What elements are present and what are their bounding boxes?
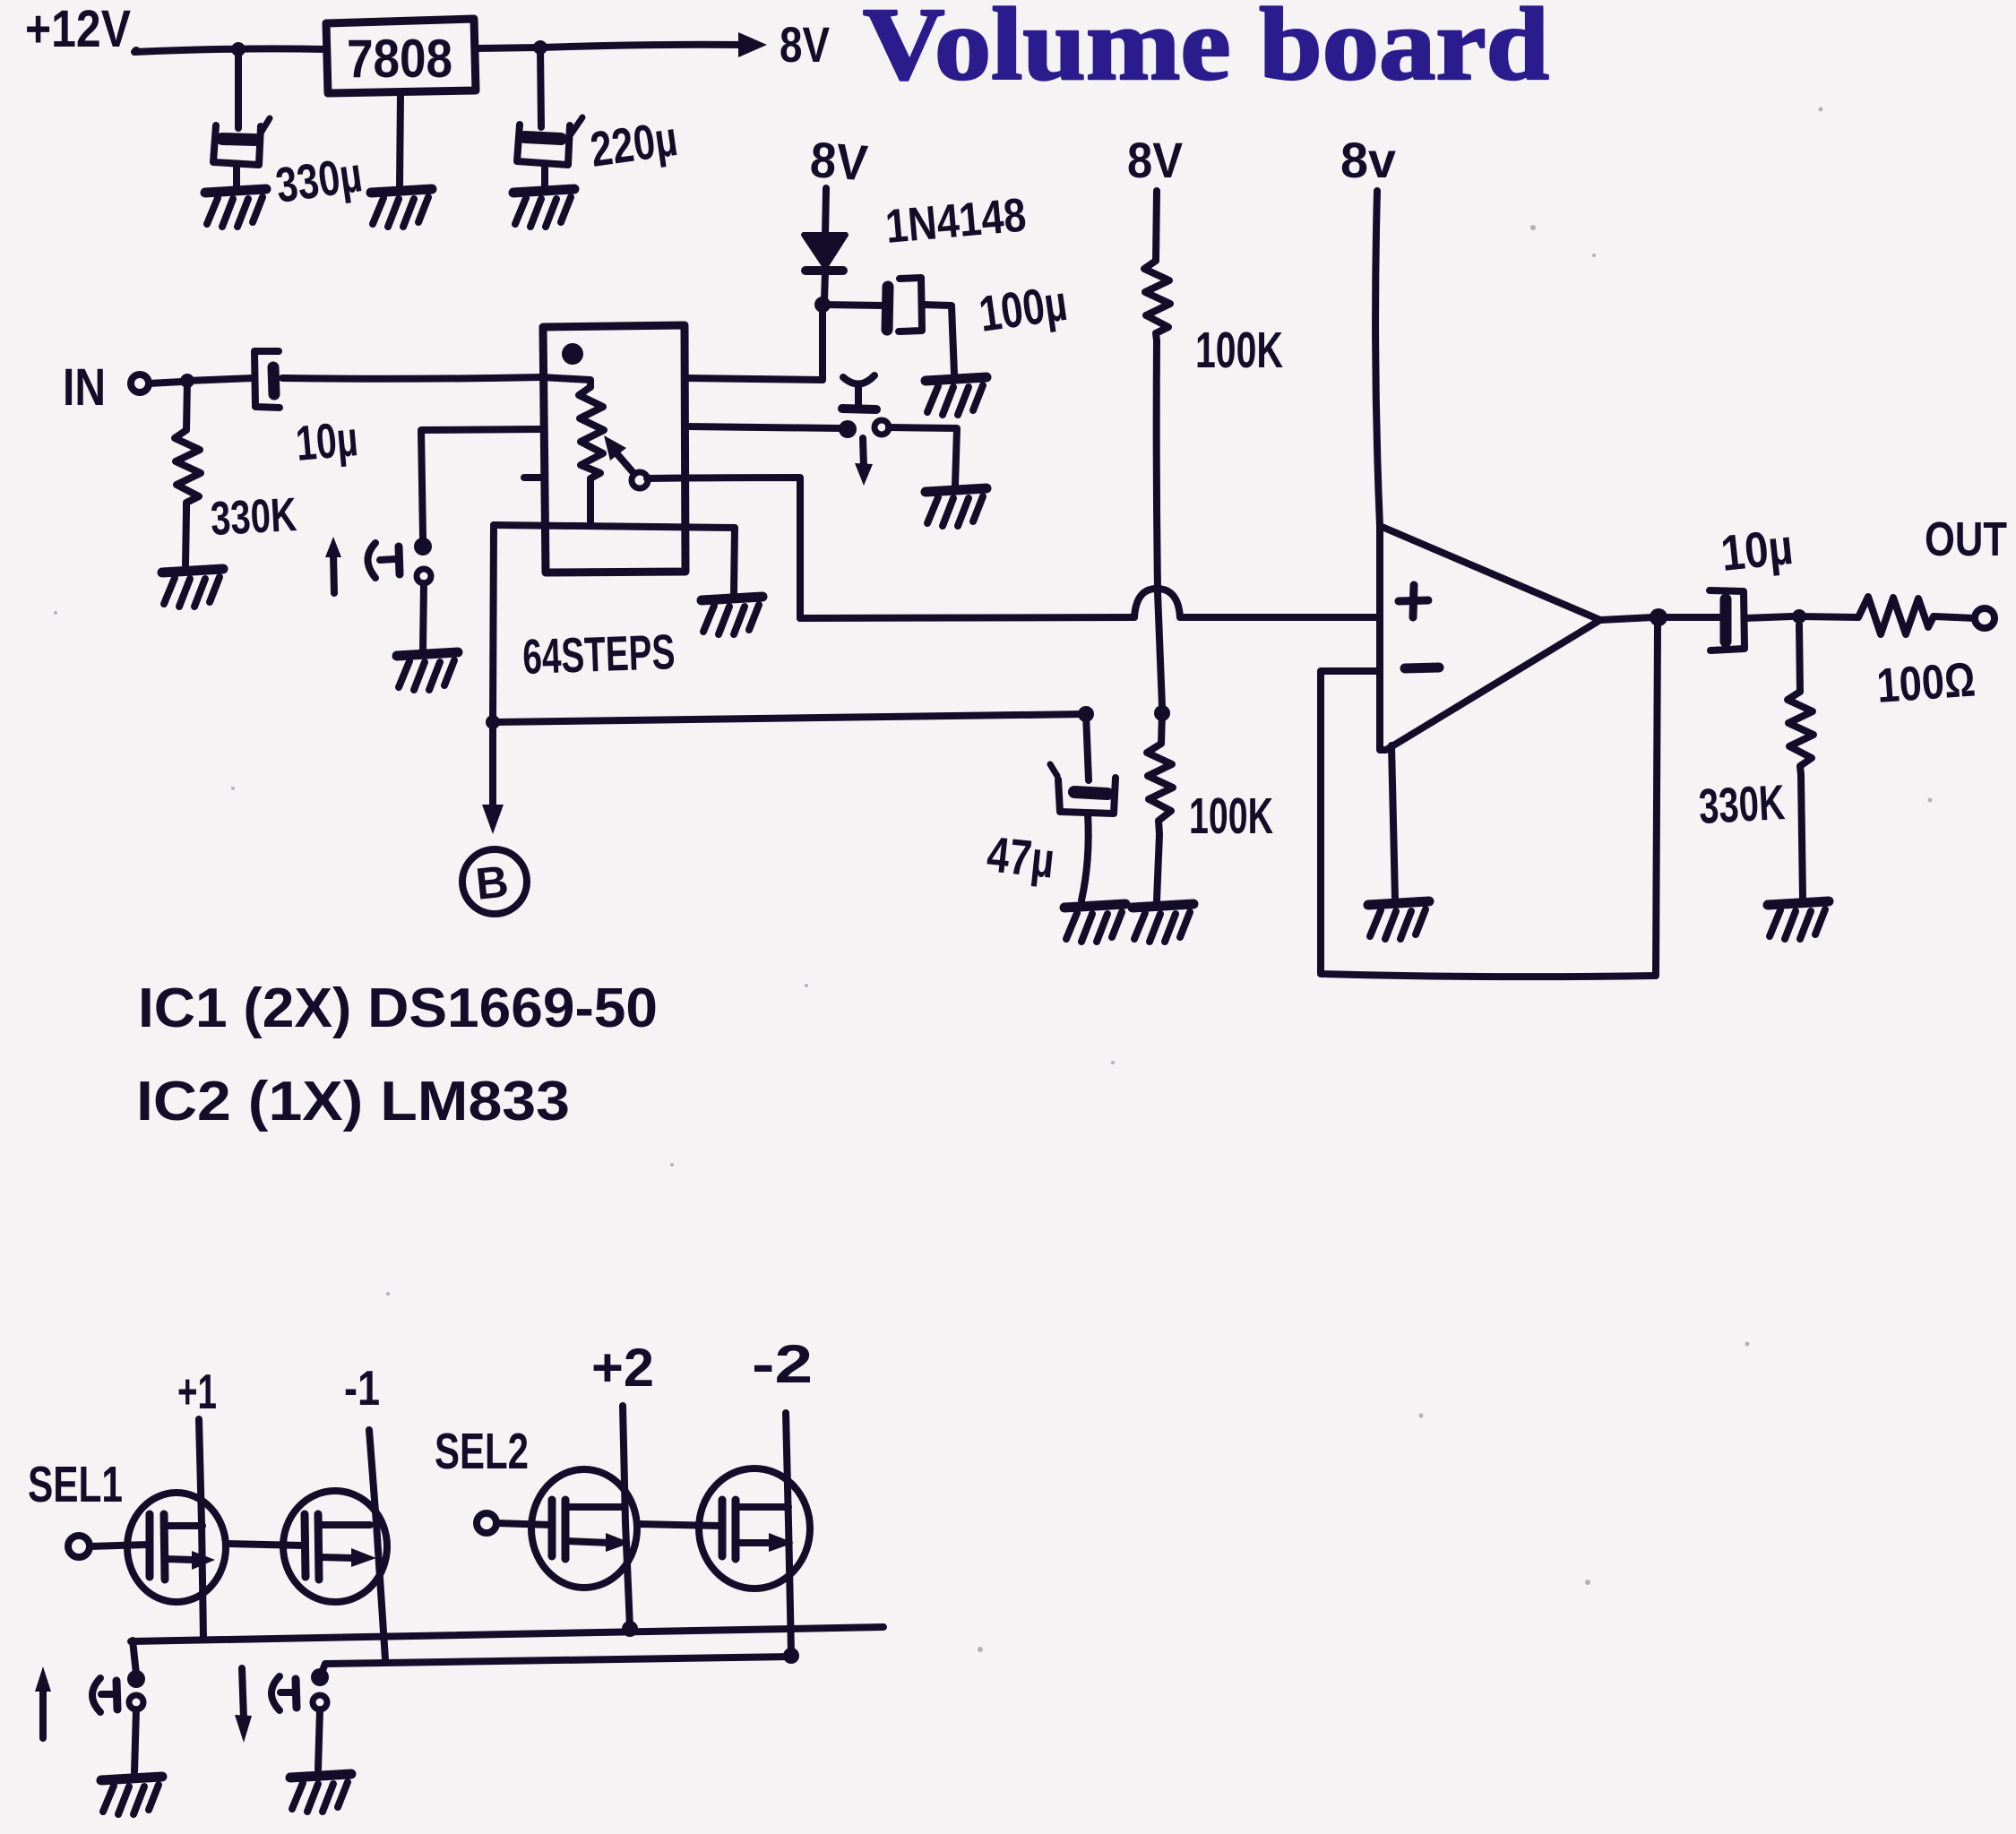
capacitor C5 10u output [1710, 590, 1745, 650]
wire R1 from junction [186, 381, 187, 430]
arrow up SEL1 [35, 1666, 51, 1738]
ground under down button [926, 488, 986, 526]
wire C1 to ground [233, 165, 240, 187]
wire pot top inside IC1 [541, 377, 590, 387]
wire hop arc [1134, 589, 1180, 617]
svg-text:8v: 8v [1340, 132, 1396, 188]
wiper arrow of potentiometer [604, 435, 648, 488]
ground under C3 [926, 377, 986, 415]
wire IC1 pin to diode node [685, 378, 823, 380]
wire junction to R4 [1799, 616, 1858, 617]
ground under K2 [290, 1774, 351, 1812]
potentiometer element inside IC1 [579, 387, 604, 525]
wire IN terminal to junction [149, 382, 182, 383]
opamp plus sign [1399, 585, 1428, 617]
wire IC1 pin2 to down button [685, 426, 840, 428]
wire K1 to ground [134, 1709, 136, 1772]
svg-text:100K: 100K [1189, 788, 1273, 845]
wire stub down to ground [734, 528, 735, 594]
node Q4 bus2 junction [783, 1648, 799, 1664]
wire wiper to opamp plus corner [647, 478, 800, 618]
node down button left contact [839, 420, 857, 438]
svg-text:8V: 8V [780, 16, 830, 73]
ground under R3 [1133, 904, 1193, 942]
wire bus2 [325, 1657, 792, 1664]
diode D1 1N4148 [804, 235, 846, 300]
ground under C1 [205, 189, 266, 227]
arrow 8V feed [738, 32, 767, 57]
node K2 upper dot [311, 1668, 329, 1686]
wire C2 to ground [541, 165, 548, 187]
node upper contact dot [414, 538, 432, 555]
node junction at R1 [180, 374, 194, 388]
resistor R5 330K output [1788, 692, 1814, 775]
node output RC junction [1792, 609, 1806, 624]
wire C5 to junction [1745, 616, 1792, 618]
svg-text:IN: IN [63, 358, 106, 417]
wire R5 to ground [1801, 775, 1803, 899]
wire junction down to C2 [540, 47, 541, 127]
arrow down SEL2 latch [235, 1668, 252, 1743]
wire +2 through Q3 to bus1 [623, 1406, 630, 1627]
wire R4 to OUT terminal [1934, 616, 1975, 618]
wire right contact to ground [889, 427, 957, 486]
svg-text:10µ: 10µ [1719, 518, 1796, 581]
wire K2 to ground [318, 1709, 320, 1769]
wire C4 to ground [1081, 814, 1089, 900]
opamp minus sign [1405, 667, 1439, 668]
terminal OUT circle [1975, 608, 1994, 628]
node K1 upper dot [127, 1670, 145, 1688]
resistor R3 100K lower [1147, 713, 1173, 834]
transistor Q1 [127, 1493, 226, 1602]
wire SEL2 to Q3 gate [496, 1523, 551, 1525]
node junction B wire [486, 715, 500, 729]
svg-text:SEL2: SEL2 [435, 1423, 529, 1480]
regulator U3 7808 box [326, 19, 476, 93]
node down button right contact [874, 420, 889, 435]
svg-text:7808: 7808 [347, 29, 452, 89]
wire 7808 output to junction [476, 47, 540, 48]
wire 8v to opamp top [1375, 191, 1380, 526]
IC IC1 DS1669 box [543, 325, 685, 573]
wire diode junction down to button row [819, 305, 826, 380]
ground under 7808 [371, 189, 432, 227]
node divider junction [1154, 705, 1170, 721]
wire R1 to ground [185, 511, 186, 565]
svg-text:SEL1: SEL1 [28, 1456, 123, 1513]
arrow down at button [855, 438, 873, 486]
transistor Q2 [283, 1491, 387, 1602]
wire minus input feedback loop [1321, 625, 1658, 977]
op-amp IC2 LM833 triangle [1380, 526, 1600, 750]
svg-text:100µ: 100µ [976, 274, 1071, 342]
node C4 junction [1078, 706, 1094, 722]
transistor Q3 [531, 1469, 637, 1588]
wire bus1 [131, 1627, 883, 1641]
contact K2 down [271, 1676, 297, 1710]
node K1 lower circle [129, 1695, 143, 1709]
svg-text:100K: 100K [1195, 322, 1283, 379]
svg-text:10µ: 10µ [294, 410, 360, 471]
ground under K1 [101, 1777, 162, 1814]
wire -2 through Q4 to bus2 [786, 1413, 791, 1654]
wire +1 through Q1 to bus [199, 1419, 203, 1639]
wire hop continue down [1158, 592, 1162, 707]
wire output node to C5 [1667, 614, 1719, 621]
svg-text:64STEPS: 64STEPS [521, 624, 676, 685]
svg-text:+2: +2 [591, 1338, 654, 1398]
button up contact near IC1 [368, 543, 401, 578]
wire junction to C3 [823, 305, 883, 306]
svg-text:-2: -2 [752, 1334, 813, 1394]
capacitor C4 47u [1050, 764, 1116, 814]
arrow down to node B [482, 722, 504, 834]
arrow up at IC1 button [325, 537, 341, 593]
wire C4 junction down [1086, 714, 1089, 780]
svg-text:OUT: OUT [1925, 512, 2007, 566]
pin 1 marker dot [562, 343, 583, 365]
resistor R2 100K upper [1144, 261, 1170, 340]
svg-text:1N4148: 1N4148 [883, 188, 1029, 253]
wire bus2 left end down [320, 1664, 325, 1677]
ground under IC1 stub [702, 597, 762, 634]
wire wiper stub left [524, 474, 541, 481]
node lower contact circle [417, 569, 431, 583]
wire hop to plus input [1180, 614, 1380, 621]
wire junction down to R5 [1799, 624, 1800, 692]
wire pot bottom across to ground stub [494, 525, 735, 528]
wire opamp power to ground [1391, 745, 1395, 899]
wire 7808 ground pin [400, 93, 401, 187]
svg-text:100Ω: 100Ω [1875, 652, 1977, 713]
node Q3 bus junction [622, 1621, 638, 1637]
wire 8V to R2 [1156, 191, 1157, 261]
resistor R4 100ohm [1858, 597, 1934, 634]
ground under R1 [162, 569, 223, 607]
node B circle [462, 849, 527, 914]
transistor Q4 [699, 1468, 810, 1589]
node junction at C1 [231, 42, 246, 56]
svg-text:Volume board: Volume board [863, 0, 1549, 102]
ground under C2 [513, 189, 574, 227]
resistor R1 330K [175, 430, 201, 511]
terminal SEL2 circle [477, 1513, 496, 1533]
wire R2 down to divider junction [1157, 340, 1158, 589]
svg-text:+1: +1 [177, 1364, 217, 1419]
wire junction to 8V arrow [540, 45, 742, 47]
capacitor C2 220u [517, 117, 582, 165]
wire -1 through Q2 to bus2 [369, 1430, 385, 1659]
ground under R5 [1768, 901, 1829, 939]
node junction at C2 [533, 40, 547, 55]
svg-text:8V: 8V [1127, 132, 1183, 188]
capacitor C6 10u input [254, 351, 280, 408]
capacitor C1 330u [213, 118, 270, 165]
wire junction down to C1 [235, 49, 242, 128]
wire apex to output node [1600, 617, 1653, 620]
wire Q3 to Q4 gate [638, 1524, 721, 1526]
wire lower contact to ground [423, 583, 424, 650]
svg-text:IC2 (1X) LM833: IC2 (1X) LM833 [136, 1071, 570, 1132]
wire SEL1 to Q1 gate [90, 1545, 149, 1546]
wire B node vertical [493, 525, 494, 722]
capacitor C3 100u [887, 278, 922, 331]
svg-text:IC1 (2X) DS1669-50: IC1 (2X) DS1669-50 [138, 977, 658, 1039]
node diode cathode junction [814, 297, 831, 313]
wire +12V to 7808 input [134, 48, 326, 52]
node output junction [1650, 608, 1667, 626]
wire C6 to IC1 pot top [282, 377, 541, 379]
svg-text:8V: 8V [808, 131, 869, 191]
svg-text:+12V: +12V [25, 0, 131, 58]
ground under C4 [1064, 904, 1125, 942]
button down plunger [842, 375, 876, 409]
svg-text:330K: 330K [1697, 774, 1786, 834]
wire 8V to diode D1 [825, 188, 826, 236]
svg-text:330µ: 330µ [272, 146, 366, 213]
svg-text:-1: -1 [344, 1360, 380, 1416]
ground under opamp [1368, 901, 1429, 939]
terminal SEL1 circle [68, 1536, 90, 1557]
contact K1 up [92, 1678, 117, 1712]
svg-text:B: B [473, 856, 511, 908]
svg-text:47µ: 47µ [985, 825, 1057, 888]
svg-text:330K: 330K [210, 488, 298, 546]
terminal IN circle [131, 375, 149, 392]
wire C3 to ground [922, 305, 954, 375]
node K2 lower circle [313, 1695, 327, 1709]
wire bus1 left end down [133, 1640, 136, 1674]
wire junction to C6 [187, 378, 254, 381]
wire long node B to divider [493, 714, 1086, 722]
svg-text:220µ: 220µ [587, 110, 681, 177]
wire hop over divider then to plus input [800, 617, 1134, 618]
wire Q1 to Q2 gate [226, 1544, 304, 1546]
ground under IC1 button [397, 652, 458, 690]
wire R3 to ground [1157, 834, 1159, 900]
wire upper contact to IC1 left pin [421, 429, 541, 538]
